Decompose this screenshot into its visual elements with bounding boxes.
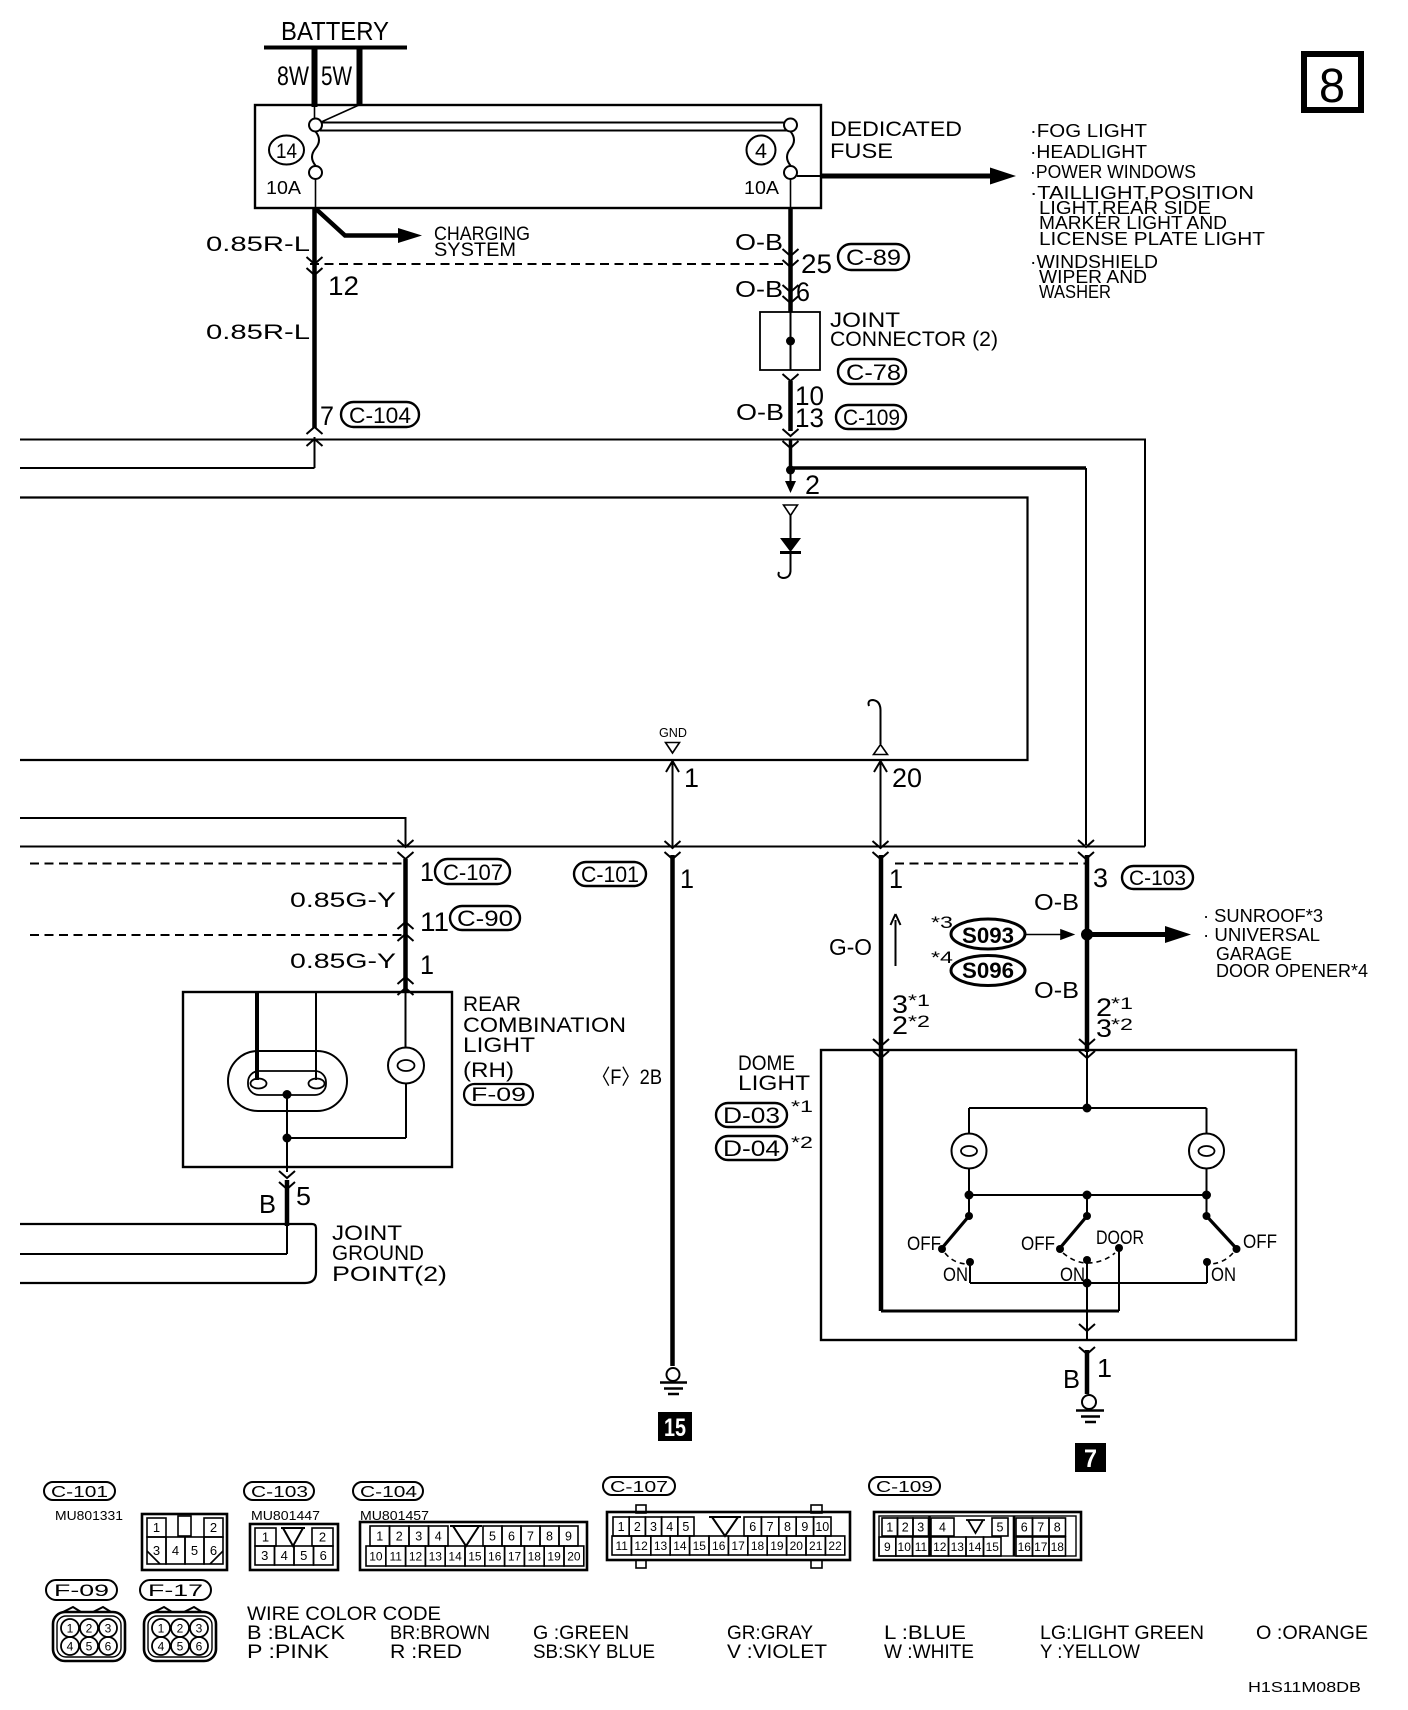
svg-text:6: 6: [796, 277, 810, 307]
svg-text:1: 1: [158, 1622, 165, 1636]
svg-text:19: 19: [547, 1549, 561, 1563]
svg-text:1: 1: [420, 857, 434, 887]
wire GND pin 1: [665, 761, 700, 859]
connector D-04 label: [716, 1133, 813, 1161]
wire feed to back-up bulb: [405, 992, 407, 1048]
svg-text:5: 5: [489, 1530, 496, 1544]
svg-text:4: 4: [281, 1548, 288, 1563]
svg-text:DOOR: DOOR: [1096, 1228, 1144, 1249]
svg-text:C-101: C-101: [581, 862, 639, 887]
svg-text:5W: 5W: [321, 61, 352, 91]
page number 8: [1304, 54, 1361, 113]
node bulb return bus: [965, 1191, 1212, 1217]
connector C-90 label: [450, 906, 520, 931]
svg-text:15: 15: [693, 1539, 707, 1553]
svg-text:REAR: REAR: [463, 993, 521, 1016]
svg-text:4: 4: [158, 1640, 165, 1654]
svg-text:C-104: C-104: [360, 1484, 417, 1501]
svg-text:18: 18: [751, 1539, 765, 1553]
node C-103 crossing: [1078, 840, 1094, 859]
svg-text:8: 8: [1054, 1521, 1061, 1535]
svg-text:7: 7: [527, 1530, 534, 1544]
svg-text:15: 15: [468, 1549, 482, 1563]
wire horizontal harness line: [20, 846, 1145, 848]
svg-text:H1S11M08DB: H1S11M08DB: [1248, 1679, 1361, 1696]
svg-text:BR:BROWN: BR:BROWN: [390, 1623, 490, 1644]
bulb dome right: [1189, 1134, 1224, 1196]
sunroof arrow: [1087, 905, 1368, 981]
svg-text:F-17: F-17: [148, 1581, 203, 1600]
wire ground C-101 pin 1: [592, 855, 694, 1366]
ETACS unit box: [20, 498, 1028, 761]
svg-text:GND: GND: [659, 725, 687, 740]
fuse 14: [266, 132, 322, 209]
svg-text:GR:GRAY: GR:GRAY: [727, 1623, 813, 1644]
svg-text:OFF: OFF: [1021, 1234, 1055, 1255]
svg-text:·FOG LIGHT: ·FOG LIGHT: [1030, 120, 1147, 141]
svg-text:9: 9: [565, 1530, 572, 1544]
svg-text:13: 13: [951, 1540, 965, 1554]
svg-text:6: 6: [210, 1543, 217, 1558]
svg-text:6: 6: [196, 1640, 203, 1654]
svg-text:0.85R-L: 0.85R-L: [206, 233, 310, 256]
svg-text:SYSTEM: SYSTEM: [434, 240, 516, 261]
svg-text:13: 13: [795, 403, 824, 433]
svg-text:16: 16: [488, 1549, 502, 1563]
connector F-17 label bottom: [140, 1580, 211, 1600]
svg-text:11: 11: [915, 1540, 928, 1554]
svg-text:20: 20: [567, 1549, 581, 1563]
svg-text:ON: ON: [1211, 1265, 1236, 1286]
svg-text:WIRE COLOR CODE: WIRE COLOR CODE: [247, 1604, 441, 1625]
svg-text:CONNECTOR (2): CONNECTOR (2): [830, 328, 998, 351]
svg-text:5: 5: [86, 1640, 93, 1654]
svg-text:*1: *1: [791, 1097, 813, 1116]
svg-text:3: 3: [196, 1622, 203, 1636]
pin GND terminal: [659, 725, 687, 753]
svg-text:C-103: C-103: [251, 1484, 308, 1501]
wire 8W battery feed: [277, 47, 315, 119]
node pin2 junction: [785, 466, 820, 501]
connector C-107 label: [435, 859, 510, 885]
wire 0.85R-L fuse 14 output: [206, 208, 359, 428]
svg-text:10A: 10A: [266, 178, 301, 198]
svg-text:5: 5: [997, 1521, 1004, 1535]
svg-text:·HEADLIGHT: ·HEADLIGHT: [1030, 141, 1147, 162]
wire branch to C-103: [792, 466, 1086, 470]
pin 20 pigtail: [869, 700, 888, 755]
svg-text:B: B: [1063, 1364, 1080, 1394]
svg-text:6: 6: [508, 1530, 515, 1544]
svg-text:G :GREEN: G :GREEN: [533, 1623, 629, 1644]
joint connector C-78: [760, 309, 998, 370]
svg-text:16: 16: [1018, 1540, 1032, 1554]
svg-text:19: 19: [770, 1539, 784, 1553]
svg-text:12: 12: [933, 1540, 947, 1554]
svg-text:C-109: C-109: [843, 405, 900, 430]
svg-text:3: 3: [153, 1543, 160, 1558]
svg-text:8W: 8W: [277, 61, 309, 91]
svg-text:6: 6: [320, 1548, 327, 1563]
connector C-107 label bottom: [603, 1477, 675, 1496]
svg-text:5: 5: [177, 1640, 184, 1654]
svg-text:*2: *2: [791, 1133, 813, 1152]
svg-text:21: 21: [809, 1539, 823, 1553]
svg-text:MU801331: MU801331: [55, 1508, 123, 1523]
svg-text:7: 7: [767, 1520, 774, 1534]
connector C-89 label: [838, 244, 909, 270]
svg-text:P :PINK: P :PINK: [247, 1642, 329, 1663]
svg-text:WASHER: WASHER: [1039, 281, 1111, 302]
svg-text:13: 13: [654, 1539, 668, 1553]
svg-text:C-107: C-107: [610, 1479, 668, 1496]
svg-text:OFF: OFF: [907, 1234, 941, 1255]
svg-text:OFF: OFF: [1243, 1232, 1277, 1253]
pin 2 terminal: [784, 505, 798, 516]
dedicated fuse arrow: [797, 118, 1016, 185]
svg-text:FUSE: FUSE: [830, 140, 893, 163]
svg-text:2: 2: [634, 1520, 641, 1534]
ground symbol dome: [1076, 1395, 1104, 1422]
svg-text:C-109: C-109: [876, 1479, 933, 1496]
wire horizontal to C-107: [20, 818, 406, 846]
connector C-104 pinout: [360, 1522, 587, 1570]
svg-text:2: 2: [177, 1622, 184, 1636]
svg-text:4: 4: [67, 1640, 74, 1654]
svg-text:LIGHT: LIGHT: [738, 1072, 810, 1095]
wire tail feed left: [255, 992, 259, 1080]
node C-107 crossing: [398, 840, 414, 859]
connector F-09 pinout: [53, 1607, 125, 1661]
svg-text:15: 15: [664, 1414, 686, 1442]
svg-text:MU801447: MU801447: [251, 1508, 320, 1523]
svg-text:*4: *4: [931, 948, 953, 967]
diode: [779, 516, 802, 579]
wire O-B joint connector to C-109: [736, 374, 824, 470]
svg-text:8: 8: [546, 1530, 553, 1544]
connector C-109 pinout: [874, 1512, 1081, 1560]
wire 0.85G-Y: [290, 859, 449, 995]
svg-text:DOOR OPENER*4: DOOR OPENER*4: [1216, 960, 1368, 981]
connector C-101 label: [574, 862, 646, 887]
svg-text:BATTERY: BATTERY: [281, 16, 389, 46]
svg-text:2: 2: [396, 1530, 403, 1544]
svg-text:C-90: C-90: [457, 906, 513, 931]
svg-text:(RH): (RH): [463, 1059, 514, 1082]
svg-text:14: 14: [276, 140, 297, 163]
svg-text:20: 20: [790, 1539, 804, 1553]
wire pin 20: [873, 761, 923, 859]
switch dome right: [1203, 1212, 1278, 1286]
svg-text:2: 2: [892, 1012, 908, 1040]
svg-text:4: 4: [666, 1520, 673, 1534]
wire B to joint ground: [259, 1138, 311, 1254]
svg-text:L :BLUE: L :BLUE: [884, 1623, 966, 1644]
svg-text:V :VIOLET: V :VIOLET: [727, 1642, 827, 1663]
svg-text:3: 3: [105, 1622, 112, 1636]
svg-text:C-101: C-101: [51, 1484, 108, 1501]
svg-text:12: 12: [409, 1549, 423, 1563]
battery: [264, 16, 407, 48]
svg-text:7: 7: [1037, 1521, 1044, 1535]
page reference 15: [658, 1412, 692, 1442]
connector C-107 pinout: [607, 1505, 850, 1568]
svg-text:7: 7: [1084, 1445, 1097, 1473]
svg-text:4: 4: [172, 1543, 179, 1558]
wire horizontal to C-104: [20, 467, 315, 469]
svg-text:1: 1: [153, 1520, 160, 1535]
connector C-109 label: [836, 405, 906, 430]
svg-text:· SUNROOF*3: · SUNROOF*3: [1203, 905, 1323, 926]
svg-text:9: 9: [801, 1520, 808, 1534]
connector F-09 label: [464, 1084, 533, 1106]
connector D-03 label: [716, 1097, 813, 1128]
svg-text:GROUND: GROUND: [332, 1242, 424, 1265]
svg-text:LG:LIGHT GREEN: LG:LIGHT GREEN: [1040, 1623, 1204, 1644]
svg-text:5: 5: [300, 1548, 307, 1563]
fuse box: [255, 105, 821, 208]
svg-text:14: 14: [968, 1540, 982, 1554]
svg-text:DEDICATED: DEDICATED: [830, 118, 962, 141]
wire horizontal bus upper: [20, 440, 1145, 847]
splice S096: [931, 948, 1025, 986]
dashed harness line left: [30, 863, 405, 865]
svg-text:*2: *2: [908, 1012, 930, 1031]
svg-text:C-89: C-89: [846, 245, 901, 270]
svg-text:*1: *1: [908, 991, 930, 1010]
wire O-B C-103 pin 3 to dome: [1034, 855, 1133, 1058]
svg-text:5: 5: [191, 1543, 198, 1558]
svg-text:C-103: C-103: [1129, 867, 1186, 890]
svg-text:POINT(2): POINT(2): [332, 1263, 447, 1286]
svg-text:R :RED: R :RED: [390, 1642, 462, 1663]
svg-text:O-B: O-B: [735, 276, 783, 302]
svg-text:3: 3: [1093, 863, 1108, 893]
connector C-78 label: [838, 359, 906, 385]
dedicated fuse load list: [1030, 120, 1265, 302]
svg-text:*1: *1: [1111, 994, 1133, 1013]
svg-text:·POWER WINDOWS: ·POWER WINDOWS: [1030, 161, 1196, 182]
svg-text:4: 4: [435, 1530, 442, 1544]
wire G-O pin 20 to dome: [829, 855, 930, 1058]
node switch output bus: [970, 1279, 1207, 1341]
wire color code legend: [247, 1604, 1368, 1663]
svg-text:1: 1: [684, 763, 699, 793]
svg-text:12: 12: [634, 1539, 648, 1553]
svg-text:LICENSE PLATE LIGHT: LICENSE PLATE LIGHT: [1039, 228, 1265, 249]
svg-text:O-B: O-B: [1034, 977, 1079, 1003]
svg-text:17: 17: [731, 1539, 745, 1553]
svg-text:4: 4: [939, 1521, 946, 1535]
svg-text:1: 1: [618, 1520, 625, 1534]
svg-text:1: 1: [376, 1530, 383, 1544]
svg-text:4: 4: [755, 140, 767, 163]
svg-text:F-09: F-09: [471, 1085, 526, 1106]
connector F-09 label bottom: [46, 1580, 117, 1600]
svg-text:B: B: [259, 1189, 276, 1219]
svg-text:1: 1: [680, 864, 694, 894]
svg-text:1: 1: [1097, 1353, 1112, 1383]
svg-text:5: 5: [296, 1181, 311, 1211]
svg-text:13: 13: [429, 1549, 443, 1563]
svg-text:17: 17: [508, 1549, 522, 1563]
svg-text:10: 10: [898, 1540, 912, 1554]
svg-text:10: 10: [815, 1520, 829, 1534]
svg-text:1: 1: [262, 1530, 269, 1545]
svg-text:B :BLACK: B :BLACK: [247, 1623, 345, 1644]
svg-text:11: 11: [420, 907, 449, 937]
wire O-B fuse 4 to joint connector: [735, 208, 832, 312]
svg-text:1: 1: [67, 1622, 74, 1636]
svg-text:11: 11: [389, 1549, 402, 1563]
svg-text:2: 2: [902, 1521, 909, 1535]
svg-text:O-B: O-B: [736, 399, 784, 425]
switch dome left: [907, 1212, 974, 1286]
connector C-103 label: [1122, 866, 1193, 890]
svg-text:14: 14: [448, 1549, 462, 1563]
svg-text:2: 2: [319, 1530, 326, 1545]
svg-text:6: 6: [105, 1640, 112, 1654]
svg-text:D-03: D-03: [723, 1103, 780, 1128]
svg-text:S093: S093: [962, 923, 1014, 948]
svg-text:9: 9: [884, 1540, 891, 1554]
connector C-101 label bottom: [44, 1482, 115, 1501]
svg-text:1: 1: [420, 950, 434, 980]
svg-text:2: 2: [210, 1520, 217, 1535]
svg-text:18: 18: [528, 1549, 542, 1563]
ground symbol middle: [660, 1368, 687, 1394]
page reference 7: [1075, 1443, 1106, 1473]
svg-text:10A: 10A: [744, 178, 779, 198]
svg-text:2: 2: [86, 1622, 93, 1636]
svg-text:14: 14: [673, 1539, 687, 1553]
svg-text:*3: *3: [931, 913, 953, 932]
svg-text:6: 6: [749, 1520, 756, 1534]
svg-text:Y :YELLOW: Y :YELLOW: [1040, 1642, 1140, 1663]
bus bar: [309, 119, 797, 132]
svg-text:20: 20: [892, 763, 922, 793]
svg-text:S096: S096: [962, 958, 1014, 983]
svg-text:10: 10: [369, 1549, 383, 1563]
connector C-109 label bottom: [869, 1477, 940, 1496]
svg-text:F-09: F-09: [54, 1581, 109, 1600]
wire G-O inside dome: [881, 1052, 1119, 1311]
svg-text:8: 8: [784, 1520, 791, 1534]
svg-text:3: 3: [261, 1548, 268, 1563]
svg-text:12: 12: [328, 271, 359, 301]
svg-text:O-B: O-B: [735, 229, 783, 255]
wire tail feed right: [315, 992, 317, 1080]
dome light box: [738, 1050, 1296, 1340]
svg-text:LIGHT: LIGHT: [463, 1034, 535, 1057]
dashed harness line right: [895, 863, 1085, 865]
svg-text:O-B: O-B: [1034, 889, 1079, 915]
svg-text:SB:SKY BLUE: SB:SKY BLUE: [533, 1642, 655, 1663]
svg-text:D-04: D-04: [723, 1136, 780, 1161]
svg-text:C-78: C-78: [846, 360, 901, 385]
svg-text:11: 11: [615, 1539, 628, 1553]
svg-text:7: 7: [320, 401, 334, 431]
dashed line C-90: [30, 934, 405, 936]
connector C-104 label bottom: [353, 1482, 423, 1501]
rear combination light box: [183, 992, 626, 1167]
connector F-17 pinout: [144, 1607, 216, 1661]
switch dome center: [1021, 1212, 1144, 1286]
bulb single: [388, 1048, 424, 1084]
joint ground point bus: [20, 1222, 447, 1286]
svg-text:17: 17: [1034, 1540, 1048, 1554]
svg-text:3: 3: [917, 1521, 924, 1535]
connector C-104 label: [341, 402, 419, 428]
svg-text:G-O: G-O: [829, 934, 872, 960]
svg-text:O :ORANGE: O :ORANGE: [1256, 1623, 1368, 1644]
svg-text:2: 2: [805, 470, 820, 500]
wire to connector C-104 pin 7: [307, 401, 335, 468]
svg-text:0.85G-Y: 0.85G-Y: [290, 950, 396, 973]
connector C-101 pinout: [142, 1514, 227, 1570]
svg-text:〈F〉2B: 〈F〉2B: [592, 1066, 662, 1089]
wire bulb common ground: [283, 1084, 407, 1143]
connector C-103 label bottom: [244, 1482, 314, 1501]
svg-text:ON: ON: [943, 1265, 968, 1286]
dashed line battery row: [310, 263, 786, 265]
splice S093: [931, 913, 1025, 949]
bulb dome left: [952, 1134, 987, 1196]
bulb dual filament: [228, 1051, 347, 1111]
svg-text:3: 3: [415, 1530, 422, 1544]
svg-text:· UNIVERSAL: · UNIVERSAL: [1203, 924, 1320, 945]
svg-text:25: 25: [801, 249, 832, 279]
svg-text:6: 6: [1021, 1521, 1028, 1535]
svg-text:1: 1: [889, 864, 903, 894]
node splice junction: [1025, 929, 1093, 941]
svg-text:*2: *2: [1111, 1015, 1133, 1034]
node bulb supply bus: [969, 1104, 1207, 1135]
svg-text:8: 8: [1319, 60, 1345, 113]
svg-text:C-107: C-107: [443, 860, 503, 885]
fuse 4: [744, 132, 797, 209]
connector C-103 pinout: [250, 1524, 338, 1570]
svg-text:16: 16: [712, 1539, 726, 1553]
svg-text:15: 15: [986, 1540, 1000, 1554]
wire 5W battery feed: [319, 47, 360, 123]
svg-text:18: 18: [1051, 1540, 1065, 1554]
wire B dome ground: [1063, 1324, 1112, 1394]
svg-text:W :WHITE: W :WHITE: [884, 1642, 974, 1663]
svg-text:3: 3: [1096, 1015, 1112, 1043]
svg-text:C-104: C-104: [349, 403, 411, 428]
svg-text:22: 22: [828, 1539, 842, 1553]
wire O-B inside dome: [1086, 1052, 1088, 1108]
charging system arrow: [316, 209, 530, 261]
svg-text:0.85R-L: 0.85R-L: [206, 321, 310, 344]
svg-text:5: 5: [682, 1520, 689, 1534]
svg-text:1: 1: [886, 1521, 893, 1535]
svg-text:0.85G-Y: 0.85G-Y: [290, 889, 396, 912]
svg-text:3: 3: [650, 1520, 657, 1534]
